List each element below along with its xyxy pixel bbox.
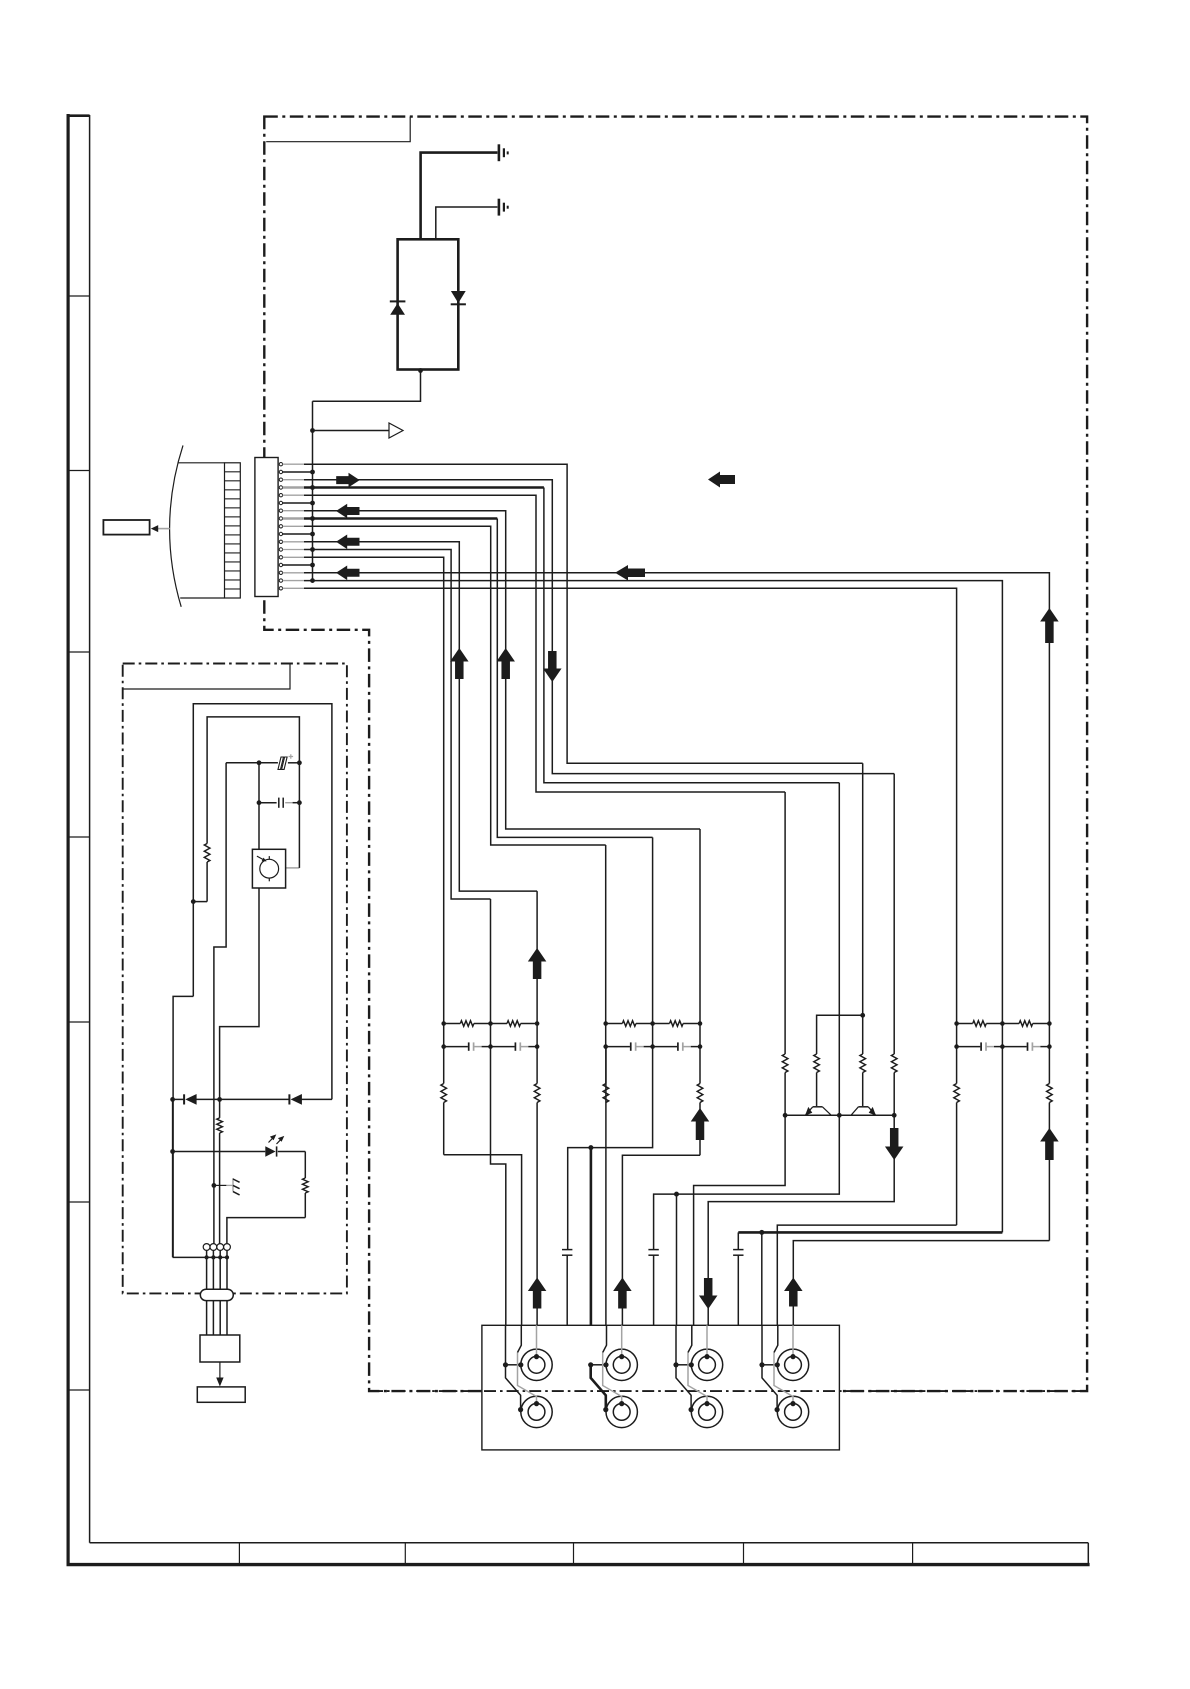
node col862 branch <box>860 1013 865 1018</box>
sensor box <box>103 520 149 535</box>
wires ferrite to filter <box>207 1301 227 1335</box>
page border bottom (thick) <box>67 1563 1090 1566</box>
connector CN (17pin) <box>255 458 278 597</box>
sub PWB label leader <box>123 664 290 690</box>
margin scale tick 6 <box>67 1201 90 1203</box>
wire col839 drop <box>838 783 840 1116</box>
motor M1 winding top <box>521 1349 552 1380</box>
margin scale tick 4 <box>67 836 90 838</box>
choke stubs <box>207 1250 227 1257</box>
varistor TH1 <box>278 754 293 769</box>
flow arrow col537 (up) <box>528 948 547 979</box>
RC-B column links <box>606 1024 700 1047</box>
diode D4 (left) <box>289 1094 302 1105</box>
buffer gate (open triangle) <box>389 423 403 438</box>
node at diode loop bottom <box>418 368 423 373</box>
wire pin3 net <box>304 480 894 774</box>
wire rail col894 to M3-D <box>708 1115 894 1325</box>
motor M4 terminal nodes <box>759 1354 795 1412</box>
motor M2 coil lead B <box>603 1325 622 1403</box>
flow arrow pin15 (left) <box>336 566 360 581</box>
power inlet box <box>197 1387 245 1402</box>
varistor row wire <box>226 762 299 764</box>
flow arrow RB3 (up) <box>691 1108 710 1140</box>
motor M4 coil lead A <box>762 1325 777 1409</box>
title bar cell dividers <box>239 1543 912 1563</box>
diode row wire <box>173 1098 332 1100</box>
frame ground FG2 <box>499 199 508 216</box>
wire pin17 net <box>304 588 957 1023</box>
node loop1 <box>191 899 196 904</box>
resistor pair RC-D row <box>957 1021 1050 1027</box>
beam arrowhead <box>151 525 158 532</box>
wire diode loop to bus <box>313 371 421 402</box>
wire M2-C (bold) <box>590 1148 593 1365</box>
wire sym to coil <box>214 763 226 1244</box>
capacitor CM1 <box>562 1250 572 1326</box>
resistor RB1 <box>603 1047 609 1103</box>
motor M3 winding top <box>691 1349 722 1380</box>
varistor nodes <box>257 760 302 765</box>
noise filter box <box>200 1335 240 1362</box>
motor M3 winding bottom <box>691 1396 722 1427</box>
chassis ground <box>214 1178 240 1195</box>
wire col490 drop <box>490 899 492 1024</box>
bus junction nodes <box>310 470 315 583</box>
motor M2 terminal nodes <box>588 1354 624 1412</box>
motor M2 winding top <box>606 1349 637 1380</box>
inner margin line left <box>89 115 91 1543</box>
led row wire <box>173 1151 306 1153</box>
flow arrow on 505 drop (up) <box>496 648 515 679</box>
resistor R-c <box>303 1152 309 1218</box>
LED D5 <box>265 1134 284 1156</box>
fan box <box>252 849 285 888</box>
wire branch to R-T1 <box>817 1015 863 1054</box>
wire pin4 net (bold) <box>304 486 544 489</box>
diode D3 (left) <box>184 1094 197 1105</box>
rail nodes <box>783 1113 897 1118</box>
wire fan feedback up <box>298 763 300 868</box>
main PWB boundary through motor box (dash-dot) <box>371 1390 1086 1392</box>
flow arrow M3 phase (down) <box>699 1278 718 1309</box>
margin scale tick 2 <box>67 470 90 472</box>
wire RD3 to M4-D <box>793 1241 1049 1326</box>
capacitor pair RC-A row <box>444 1042 537 1050</box>
resistor RT0 <box>782 792 788 1115</box>
margin scale tick 7 <box>67 1389 90 1391</box>
wire bold rail to M4-A / CM3 <box>738 1231 1002 1234</box>
motor M2 coil lead A <box>591 1365 606 1410</box>
wire pin1 net <box>304 464 863 763</box>
inner loop 1 <box>193 704 332 1100</box>
wire col605 drop <box>605 845 607 1024</box>
connector pin circles <box>279 463 282 591</box>
wire rail col839 to M3-A / CM2 <box>654 1115 840 1249</box>
RC-A junction nodes <box>441 1021 539 1049</box>
motor M3 coil lead B <box>688 1325 707 1403</box>
wire pin9 net <box>304 526 606 845</box>
node M4-A tap <box>759 1230 764 1235</box>
wire col652 drop <box>652 837 654 1023</box>
bus vertical at connector <box>312 401 314 580</box>
wire FG2 <box>436 207 498 239</box>
motor M4 winding top <box>777 1349 808 1380</box>
ferrite core <box>200 1289 233 1300</box>
wires choke to ferrite <box>207 1257 227 1289</box>
flow arrow M2 phase (up) <box>613 1278 632 1309</box>
frame ground FG1 <box>499 144 508 161</box>
wire rail col785 to M3-B <box>694 1115 786 1325</box>
wire RC-A mid to M1-A <box>491 1047 506 1326</box>
wire pin5 net <box>304 495 785 792</box>
wire pin11 net <box>304 542 537 891</box>
wire col537 drop <box>536 891 538 1023</box>
resistor RD3 <box>1047 1047 1053 1241</box>
wire col700 drop <box>699 829 701 1024</box>
resistor pair RC-A row <box>444 1021 537 1027</box>
motor M1 coil lead A <box>506 1325 521 1409</box>
inlet arrowhead <box>216 1378 223 1387</box>
flow arrow pin15 mid (left) <box>615 565 645 581</box>
wire pin16 net <box>304 581 1002 1024</box>
wire RB3 to M2-A <box>622 1155 700 1325</box>
floating flow arrow (left) <box>708 472 735 488</box>
margin top tick <box>67 114 90 117</box>
wire pin8 net (bold) <box>304 517 497 520</box>
motor M3 coil lead A <box>676 1325 691 1409</box>
capacitor pair RC-B row <box>606 1042 700 1050</box>
motor M1 terminal nodes <box>503 1354 539 1412</box>
beam to sensor (grey) <box>158 528 170 530</box>
node bus / buffer tap <box>310 428 315 433</box>
capacitor C-a nodes <box>257 800 302 805</box>
wire pin8 net drop <box>497 519 652 838</box>
flow arrow pin11 (left) <box>336 535 360 550</box>
diode row nodes <box>170 1097 222 1102</box>
chassis ground node <box>212 1183 217 1188</box>
flow arrow col894 (down) <box>885 1128 904 1160</box>
resistor pair RC-B row <box>606 1021 700 1027</box>
wire M4-A drop <box>761 1232 763 1325</box>
wire RC-B col1 to M2-B <box>605 1047 607 1326</box>
diode D1 (up) <box>390 301 406 314</box>
margin scale tick 5 <box>67 1021 90 1023</box>
RC-D junction nodes <box>954 1021 1051 1049</box>
RC-D column links <box>957 1024 1050 1047</box>
motor unit box <box>482 1325 840 1450</box>
motor M3 coil lead C (grey) <box>706 1325 708 1356</box>
surge diode loop (thick box) <box>398 239 459 369</box>
flow arrow RD3 (up) <box>1040 1128 1059 1160</box>
resistor RB3 <box>697 1047 703 1156</box>
flow arrow on 459 drop (up) <box>450 648 469 679</box>
wire col862 drop <box>862 763 864 1054</box>
wire RC-B mid drop <box>568 1047 653 1250</box>
node M3-A tap <box>674 1192 679 1197</box>
wire pin12 net <box>304 550 491 900</box>
motor M3 terminal nodes <box>673 1354 709 1412</box>
inner loop 2 <box>207 717 299 844</box>
main PWB label leader <box>266 117 410 142</box>
resistor R-b <box>217 1099 223 1243</box>
pin leads <box>283 464 313 588</box>
capacitor pair RC-D row <box>957 1042 1050 1050</box>
choke rail <box>173 1256 227 1258</box>
margin scale tick 1 <box>67 295 90 297</box>
margin scale tick 3 <box>67 651 90 653</box>
wire pin4 net drop <box>544 488 839 783</box>
sub PWB boundary (dash-dot) <box>123 664 347 1294</box>
RC-B junction nodes <box>603 1021 702 1049</box>
wire pin15 net <box>304 573 1049 1024</box>
motor M2 winding bottom <box>606 1396 637 1427</box>
ccd element array <box>225 463 241 598</box>
flow arrow M4 phase (up) <box>784 1278 803 1307</box>
wire FG1 (thick) <box>421 153 498 240</box>
node thick drop M2-C <box>588 1145 593 1150</box>
wire RC-D mid drop <box>1001 1047 1003 1233</box>
choke nodes <box>205 1255 230 1259</box>
main PWB boundary (dash-dot) <box>264 117 1087 1392</box>
wire filter to inlet <box>219 1362 221 1383</box>
page border left (thick) <box>66 114 69 1566</box>
flow arrow on 1049 rise (up) <box>1040 608 1059 643</box>
lens arc <box>170 445 183 606</box>
wire M3-A drop <box>676 1194 678 1325</box>
wire to buffer <box>313 430 390 432</box>
motor M4 coil lead B <box>774 1325 793 1403</box>
wire cap to fan box <box>258 763 260 850</box>
motor M2 coil lead C (grey) <box>621 1325 623 1356</box>
RC-A column links <box>444 1024 537 1047</box>
resistor RA1 (to M1) <box>441 1047 447 1155</box>
resistor RA3 (to M1) <box>534 1047 540 1326</box>
wire RD1 to M4-B <box>777 1225 956 1325</box>
motor M4 coil lead C (grey) <box>792 1325 794 1356</box>
motor M1 coil lead C (grey) <box>536 1325 538 1356</box>
resistor RT3 <box>891 774 897 1116</box>
lens body bottom <box>180 597 224 599</box>
wire pin7 net <box>304 511 700 829</box>
capacitor CM2 <box>648 1250 658 1326</box>
flow arrow M1 phase (up) <box>528 1278 547 1309</box>
motor M1 coil lead B <box>518 1325 537 1403</box>
resistor R-a <box>193 844 210 902</box>
wire R-c to coil <box>227 1218 305 1244</box>
resistor RT1 <box>814 1054 820 1106</box>
transistor Q1 <box>805 1107 831 1116</box>
title bar top line <box>90 1542 1089 1544</box>
led row node <box>170 1149 175 1154</box>
title bar right edge <box>1087 1543 1089 1563</box>
capacitor CM3 <box>733 1232 743 1325</box>
flow arrow pin3 (right) <box>336 473 360 488</box>
resistor RT2 <box>860 1054 866 1106</box>
transistor Q2 <box>851 1107 876 1116</box>
lens body top <box>178 462 225 464</box>
diode D2 (down) <box>451 291 466 304</box>
flow arrow pin7 (left) <box>336 504 360 519</box>
motor M1 winding bottom <box>521 1396 552 1427</box>
resistor RD1 <box>954 1047 960 1226</box>
wire RA1 to M1-B <box>444 1155 522 1326</box>
motor M4 winding bottom <box>777 1396 808 1427</box>
wire pin13 net <box>304 557 444 1023</box>
wire fan feedback (grey) <box>286 867 300 869</box>
flow arrow on 552 drop (down) <box>543 651 562 682</box>
wire led left drop <box>172 1099 174 1257</box>
fan motor symbol <box>257 856 279 881</box>
wire jog left <box>173 996 193 1257</box>
wire fan to jog <box>220 888 259 1099</box>
emitter rail <box>785 1114 894 1116</box>
line filter choke <box>203 1244 210 1251</box>
capacitor C-a <box>259 798 299 808</box>
